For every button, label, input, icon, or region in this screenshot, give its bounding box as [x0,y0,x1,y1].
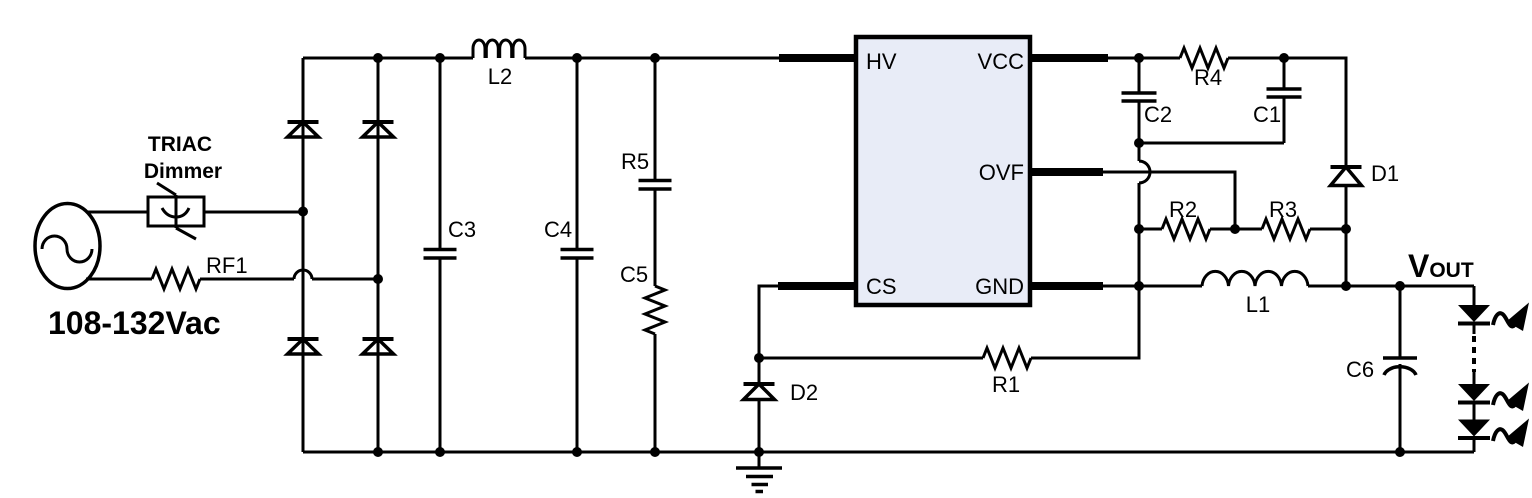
wire triac to bridge left rail [204,211,303,214]
resistor R2 [1162,219,1210,239]
LED3 light arrows [1493,429,1518,442]
node CS-R1-D2 junction [754,353,764,363]
wire hop to bridge right rail [312,278,378,281]
wire top rail [303,57,779,60]
wire RF1 to hop [200,278,294,281]
node RF1-bridge junction [373,274,383,284]
wire R2 to R3 [1210,228,1262,231]
diode bridge D-D [363,339,394,354]
resistor RF1 [152,269,200,289]
IC U1 [856,37,1030,305]
node bridge right top [373,53,383,63]
svg-text:R4: R4 [1194,65,1222,90]
ground [736,452,782,492]
node D1-output junction [1341,281,1351,291]
diode bridge D-A [288,122,319,137]
pin OVF stub [1029,168,1103,176]
svg-text:Dimmer: Dimmer [144,160,222,183]
capacitor C1 [1267,58,1302,143]
capacitor C4 [561,58,594,452]
wire D1 to output line [1345,229,1348,286]
svg-text:R3: R3 [1269,197,1297,222]
LED LED1 [1458,305,1490,334]
node rail-R2 junction [1134,224,1144,234]
wire C1 bottom to C2 bottom [1139,142,1284,145]
LED2 light arrows [1493,393,1518,406]
wire R4 to D1 branch [1228,58,1346,167]
svg-text:R5: R5 [621,149,649,174]
capacitor C2 [1122,58,1157,143]
svg-text:R1: R1 [992,372,1020,397]
svg-text:C1: C1 [1253,102,1281,127]
svg-text:D2: D2 [790,380,818,405]
svg-text:C6: C6 [1346,357,1374,382]
resistor R4 [1180,48,1228,68]
node VCC-C2 junction [1134,53,1144,63]
pin CS stub [778,282,857,290]
svg-text:R2: R2 [1169,197,1197,222]
svg-text:CS: CS [866,274,897,299]
capacitor C3 [424,58,457,452]
node R3-D1 junction [1341,224,1351,234]
node C3 top [435,53,445,63]
svg-text:C2: C2 [1144,102,1172,127]
svg-text:GND: GND [975,274,1024,299]
capacitor R5 [639,58,672,286]
svg-text:C5: C5 [620,262,648,287]
svg-text:108-132Vac: 108-132Vac [48,305,221,341]
LED LED3 [1458,420,1490,453]
svg-text:L2: L2 [488,64,512,89]
pin HV stub [779,54,857,62]
wire AC top to triac [88,211,148,214]
wire AC bottom to RF1 [86,278,152,281]
diode D2 [744,358,775,452]
node bridge right bottom [373,447,383,457]
svg-text:RF1: RF1 [206,253,248,278]
node C6 bottom [1395,447,1405,457]
node C6 top junction [1395,281,1405,291]
wire dash to LED2 [1473,372,1476,384]
svg-text:C4: C4 [544,217,572,242]
svg-text:OVF: OVF [979,160,1024,185]
svg-text:VCC: VCC [978,49,1025,74]
wire VCC rail hop over OVF [1139,143,1150,229]
node C5 bottom [650,447,660,457]
svg-text:TRIAC: TRIAC [148,133,212,156]
svg-text:C3: C3 [448,217,476,242]
wire rail to GND line [1138,229,1141,286]
wire LED dashed segment [1472,336,1476,372]
node D2 bottom [754,447,764,457]
wire R3 to D1 rail [1310,228,1346,231]
wire R1 right to GND rail [1031,286,1139,358]
wire VCC to R4 [1108,57,1180,60]
wire R1 left [759,357,983,360]
diode bridge D-C [363,122,394,137]
LED1 light arrows [1493,313,1518,326]
node C3 bottom [435,447,445,457]
node rail-GND junction [1134,281,1144,291]
resistor R3 [1262,219,1310,239]
svg-text:L1: L1 [1246,292,1270,317]
wire bridge right rail [377,58,380,452]
inductor L2 [473,40,525,58]
node triac-bridge junction [298,207,308,217]
resistor R1 [983,348,1031,368]
wire bottom rail [303,451,1474,454]
node OVF-R2-R3 junction [1230,224,1240,234]
triac dimmer [148,183,204,239]
wire GND to L1 [1103,285,1202,288]
node C2 bottom junction [1134,138,1144,148]
wire LED string top [1473,286,1476,305]
wire bridge left rail [302,58,305,452]
node C4 bottom [572,447,582,457]
resistor C5 [645,286,665,334]
node R4-C1 junction [1279,53,1289,63]
svg-text:D1: D1 [1371,161,1399,186]
diode D1 [1331,167,1362,229]
diode bridge D-B [288,339,319,354]
wire CS lead [759,286,778,358]
inductor L1 [1202,271,1308,286]
capacitor C6 [1383,286,1417,452]
node C4 top [572,53,582,63]
ac source V1 [35,204,100,289]
LED LED2 [1458,384,1490,420]
wire R2 left [1139,228,1162,231]
node R5 top [650,53,660,63]
wire hop over bridge left rail [294,270,312,279]
svg-text:VOUT: VOUT [1408,248,1474,284]
svg-text:HV: HV [866,49,897,74]
pin GND stub [1029,282,1103,290]
pin VCC stub [1029,54,1108,62]
wire C5 to bottom rail [654,334,657,452]
wire L1 to VOUT [1308,285,1474,288]
wire OVF [1103,172,1235,229]
